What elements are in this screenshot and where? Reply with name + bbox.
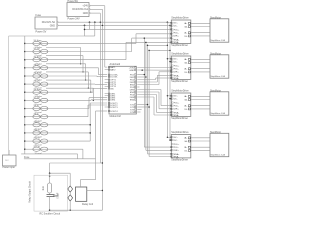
stepper motor M4 box <box>210 19 229 42</box>
svg-text:A-: A- <box>185 25 187 28</box>
svg-text:IN5: IN5 <box>110 88 114 90</box>
svg-text:X11 In: X11 In <box>34 130 41 132</box>
snubber enclosure <box>34 175 68 211</box>
wire row 8 right <box>48 99 91 101</box>
wire U2 pin1 right <box>90 5 105 7</box>
wire coil riser into MCU DOUT <box>96 110 108 112</box>
wire row1 second terminal <box>46 47 81 49</box>
svg-text:B-: B- <box>185 36 187 38</box>
wire row 2 to optocoupler <box>25 51 33 53</box>
wire pair join x=88.3 <box>87 72 89 88</box>
wire row2 to driver1 <box>132 37 172 39</box>
wire row 4 to optocoupler <box>25 67 33 69</box>
wire MCU PU3b to driver3 <box>137 96 154 98</box>
wire MCU ST3 stub <box>137 109 141 111</box>
wire row 9 to optocoupler <box>25 108 33 110</box>
MCU U1 unwired left pin stubs <box>105 69 109 71</box>
optocoupler OC11 <box>33 123 48 127</box>
wire row 6 into MCU <box>95 83 107 85</box>
svg-text:A-: A- <box>185 98 187 101</box>
svg-text:PUL-: PUL- <box>174 69 179 71</box>
wire row 13 to optocoupler <box>25 140 33 142</box>
svg-text:StepMotor 4.2A: StepMotor 4.2A <box>211 75 226 78</box>
wire into terminal J1 <box>8 150 10 155</box>
wire row 5 bend x=97.0 <box>96 75 98 78</box>
svg-text:ST4: ST4 <box>130 112 135 114</box>
wire into MCU pin VDD <box>105 66 107 68</box>
left frame vertical wire <box>8 36 10 155</box>
wire U4 A+ to motor M4 <box>191 22 210 24</box>
wire C1 to bottom rail <box>49 197 51 211</box>
wire y=45.3 to rail <box>148 44 168 46</box>
wire row1 to driver1 <box>136 33 171 35</box>
resistor R1 <box>48 183 52 193</box>
svg-text:A-: A- <box>185 61 187 64</box>
wire drop x=94.8 <box>94 22 96 36</box>
wire row 7 bend x=93.0 <box>92 88 94 92</box>
wire row2 second terminal <box>46 55 83 57</box>
wire row1 right <box>48 42 136 44</box>
wire relay coil right <box>80 179 95 181</box>
capacitor C1 mark <box>53 194 58 196</box>
junction collector row 12 <box>89 132 91 134</box>
wire row 7 right <box>48 91 93 93</box>
svg-text:X0 Step: X0 Step <box>34 39 43 42</box>
junction ladder row 3 <box>24 59 26 61</box>
junction bus+ rail <box>167 21 169 23</box>
svg-text:B-: B- <box>185 150 187 152</box>
svg-text:StepMotor 4.2A: StepMotor 4.2A <box>211 39 226 42</box>
svg-text:X3 Dir: X3 Dir <box>34 63 40 66</box>
junction trunk2 top <box>145 42 147 44</box>
svg-text:B-: B- <box>185 72 187 74</box>
svg-text:ENA-: ENA- <box>174 77 179 80</box>
junction ladder row 6 <box>24 83 26 85</box>
wire row 6 bend x=95.0 <box>94 83 96 85</box>
wire row10 right <box>48 116 88 118</box>
wire MCU ST4 stub <box>137 111 140 113</box>
wire MCU PU3 to driver3 <box>137 89 161 91</box>
junction pair x=93.3 <box>93 100 94 101</box>
wire coil riser x=95.5 <box>95 111 97 180</box>
svg-text:ENA+: ENA+ <box>174 38 180 41</box>
wire row 1 to optocoupler <box>25 42 33 44</box>
svg-text:DC-: DC- <box>174 140 178 142</box>
svg-text:GND: GND <box>129 70 134 72</box>
relay coil K1 box <box>76 187 87 201</box>
svg-text:PUL-: PUL- <box>174 147 179 149</box>
wire row 12 right <box>48 132 90 134</box>
stepper motor M5 box <box>210 55 229 78</box>
power supply U2 pin circles <box>89 5 90 6</box>
wire MCU EN2 to driver2 <box>137 84 159 86</box>
wire MCU pin level to driver2 <box>137 67 171 69</box>
wire U7 A- to motor M7 <box>191 140 210 142</box>
wire pair join x=90.8 <box>90 80 92 92</box>
wire drop x=89.5 <box>89 22 91 29</box>
svg-text:X4 Step: X4 Step <box>34 72 43 75</box>
junction busGND x=84.5 <box>84 25 86 27</box>
optocoupler OC5 <box>33 74 48 78</box>
collector vertical x=90.2 <box>89 103 91 141</box>
junction busGND rail <box>169 25 171 27</box>
optocoupler OC2 <box>33 49 48 53</box>
wire pair join x=83.0 <box>82 56 84 72</box>
optocoupler OC4 <box>33 66 48 70</box>
wire row 9 right <box>48 108 89 110</box>
wire end x=100.3 <box>99 162 101 164</box>
junction snubber frame <box>49 176 50 177</box>
wire row1 riser x=136 <box>135 34 137 44</box>
wire row 8 bend x=91.0 <box>90 99 92 102</box>
wire MCU DR3 to driver3 <box>137 91 159 93</box>
junction bus+ x=89.5 <box>89 21 91 23</box>
junction collector row 11 <box>89 124 91 126</box>
svg-text:5V+: 5V+ <box>174 59 179 61</box>
wire pair join x=80.6 <box>80 48 82 64</box>
junction ladder row 12 <box>24 132 26 134</box>
wire U5 B+ to motor M5 <box>191 68 210 70</box>
optocoupler OC10 <box>33 115 48 119</box>
junction pair x=85.6 <box>85 79 86 80</box>
svg-text:5V+: 5V+ <box>174 96 179 98</box>
svg-text:PUL+: PUL+ <box>174 103 180 105</box>
svg-text:24V: 24V <box>5 160 9 162</box>
wire U4 B+ to motor M4 <box>191 32 210 34</box>
trunk2 to driver4 pin <box>146 149 171 151</box>
svg-text:DC-: DC- <box>174 99 178 101</box>
svg-text:DIR+: DIR+ <box>174 109 180 111</box>
junction ladder row 9 <box>24 108 26 110</box>
wire row 8 to optocoupler <box>25 99 33 101</box>
svg-text:Power 5V: Power 5V <box>36 30 47 33</box>
stepper motor M6 box <box>210 92 229 115</box>
wire U6 B+ to motor M6 <box>191 105 210 107</box>
trunk x=144.3 y38-147 <box>143 38 145 147</box>
terminal block J1 box <box>3 155 17 166</box>
svg-text:+24V: +24V <box>82 5 88 8</box>
svg-text:DIR+: DIR+ <box>174 36 180 38</box>
wire U7 A+ to motor M7 <box>191 137 210 139</box>
junction bus+ x=94.8 <box>94 21 96 23</box>
junction coil GND <box>102 190 103 191</box>
svg-text:StepMotorDrive: StepMotorDrive <box>171 90 189 93</box>
optocoupler OC1 <box>33 41 48 45</box>
optocoupler OC7 <box>33 90 48 94</box>
svg-text:StepMotorDrive: StepMotorDrive <box>171 17 189 20</box>
junction ladder row 7 <box>24 91 26 93</box>
junction trunk1 top <box>144 37 146 39</box>
junction ladder row 13 <box>24 140 26 142</box>
wire row4 second terminal <box>46 71 88 73</box>
wire row 10 to optocoupler <box>25 116 33 118</box>
svg-text:DC-: DC- <box>174 62 178 64</box>
wire rail+ tap <box>167 95 171 97</box>
optocoupler OC13 <box>33 139 48 143</box>
diode D2 <box>68 195 73 201</box>
wire rail+ to driver1 <box>167 22 171 24</box>
svg-text:X8 In: X8 In <box>34 105 40 107</box>
svg-text:A-: A- <box>185 140 187 143</box>
trunk4 to driver4 pin <box>149 156 171 158</box>
svg-text:StepMotorDriver: StepMotorDriver <box>171 117 188 120</box>
wire row 7 to optocoupler <box>25 91 33 93</box>
wire row 6 right <box>48 83 95 85</box>
driver connector left pin marks <box>171 22 172 23</box>
junction x=142.2 <box>141 69 143 71</box>
wire MCU pin level to driver2 b <box>137 69 171 71</box>
wire rail- tap <box>170 98 171 100</box>
svg-text:ENA+: ENA+ <box>174 153 180 156</box>
trunk1 to driver4 pin <box>144 146 171 148</box>
wire row 14 to optocoupler <box>25 148 33 150</box>
capacitor C1 plate 1 <box>47 194 55 196</box>
svg-text:DC-: DC- <box>174 26 178 28</box>
wire to R1 <box>49 173 51 183</box>
svg-text:Relay Output Circuit: Relay Output Circuit <box>29 181 32 203</box>
junction pair x=80.6 <box>80 63 81 64</box>
junction pair x=88.3 <box>88 88 89 89</box>
junction D2 bottom <box>70 210 71 211</box>
junction ladder row 2 <box>24 51 26 53</box>
junction ladder row 5 <box>24 75 26 77</box>
trunk x=145.9 y42-150 <box>145 42 147 150</box>
wire relay bottom rail <box>50 209 103 211</box>
optocoupler OC8 <box>33 98 48 102</box>
bus +24V y=22.2 <box>58 21 167 23</box>
svg-text:DC24V/5A Out: DC24V/5A Out <box>72 8 88 11</box>
capacitor C1 plate 2 <box>47 196 55 198</box>
wire jog x=77.5 <box>77 154 79 159</box>
svg-text:X9 In: X9 In <box>34 113 40 115</box>
wire D2 to bottom rail <box>69 201 71 210</box>
DC-DC U3 box <box>35 17 57 29</box>
svg-text:DOUT4: DOUT4 <box>110 111 118 113</box>
svg-text:1kΩ: 1kΩ <box>43 186 45 190</box>
junction ladder row 1 <box>24 43 26 45</box>
optocoupler OC9 <box>33 106 48 110</box>
svg-text:DIR+: DIR+ <box>174 150 180 152</box>
svg-text:DOUT3: DOUT3 <box>110 107 118 109</box>
svg-text:Relay Coil: Relay Coil <box>82 203 93 206</box>
trunk x=149.1 y50-156 <box>148 50 150 156</box>
wire collector into MCU pin <box>90 102 107 104</box>
wire row 4 right <box>48 67 99 69</box>
wire rail+ tap <box>167 58 171 60</box>
power supply U2 box <box>67 3 89 17</box>
wire row10 into MCU <box>88 104 107 106</box>
wire drop x=104.8 to MCU VDD <box>104 6 106 67</box>
svg-text:X10 In: X10 In <box>34 121 41 123</box>
wire rail- tap <box>170 139 171 141</box>
wire MCU pin 87 stub <box>137 86 139 88</box>
wire U5 A+ to motor M5 <box>191 58 210 60</box>
wire row 5 right <box>48 75 97 77</box>
wire MCU PU2 to driver2 <box>137 79 155 81</box>
svg-text:DIR4: DIR4 <box>110 100 116 102</box>
svg-text:ENA-: ENA- <box>174 41 179 44</box>
wire U7 B- to motor M7 <box>191 149 210 151</box>
wire row3 to driver1 <box>126 41 171 43</box>
wire MCU DR1 stub <box>137 74 144 76</box>
wire pair join x=93.3 <box>92 88 94 100</box>
wire MCU EN3 to driver3 <box>137 94 156 96</box>
trunk x=147.5 y45-154 <box>147 45 149 154</box>
svg-text:ENA-: ENA- <box>174 155 179 158</box>
wire MCU DR2 to driver2 <box>137 81 157 83</box>
junction ladder row 8 <box>24 100 26 102</box>
wire row2 riser x=131.7 <box>131 38 133 51</box>
wire coil right terminal to GND drop <box>87 190 103 192</box>
stepper driver U6 box <box>171 93 191 116</box>
wire rail+ tap <box>167 136 171 138</box>
stepper driver U7 box <box>171 135 191 158</box>
svg-text:PUL+: PUL+ <box>174 144 180 146</box>
wire row 4 bend x=98.5 <box>98 68 100 75</box>
svg-text:ENA+: ENA+ <box>174 74 180 77</box>
wire U4 B- to motor M4 <box>191 35 210 37</box>
wire row14 down x=82.9 <box>82 149 84 159</box>
DC-DC U3 pin circles <box>57 22 58 23</box>
wire row 7 into MCU <box>93 87 107 89</box>
svg-text:PUL+: PUL+ <box>174 66 180 68</box>
svg-text:X13 In: X13 In <box>34 146 41 148</box>
wire MCU EN1 stub <box>137 76 146 78</box>
wire row 12 to optocoupler <box>25 132 33 134</box>
svg-text:GND: GND <box>50 24 56 27</box>
svg-text:X5 Dir: X5 Dir <box>34 80 40 83</box>
wire row6 second terminal <box>46 87 93 89</box>
wire h y=153.9 <box>21 153 77 155</box>
wire MCU ST2 stub <box>137 106 149 108</box>
svg-text:RC Snubber Circuit: RC Snubber Circuit <box>40 213 61 216</box>
wire row3 second terminal <box>46 63 86 65</box>
wire U7 B+ to motor M7 <box>191 146 210 148</box>
optocoupler OC3 <box>33 58 48 62</box>
wire row 13 right <box>48 140 90 142</box>
svg-text:StepMotorDriver: StepMotorDriver <box>171 159 188 162</box>
wire row 11 right <box>48 124 90 126</box>
wire U2 pin2 right <box>90 8 102 10</box>
riser x=84.5 to GND bus <box>84 25 86 36</box>
svg-text:X2 Step: X2 Step <box>34 55 43 58</box>
svg-text:B-: B- <box>185 109 187 111</box>
MCU U1 right pin squares <box>135 67 137 68</box>
wire drop x=100.3 to bottom bend <box>99 13 101 163</box>
svg-text:BAT2: BAT2 <box>110 69 116 72</box>
wire row 9 into MCU <box>89 97 107 99</box>
junction riser y=29.4 <box>84 29 86 31</box>
svg-text:StepMotor 4.2A: StepMotor 4.2A <box>211 154 226 157</box>
svg-text:ENA-: ENA- <box>174 114 179 117</box>
svg-text:DCOM-: DCOM- <box>110 77 118 79</box>
svg-text:MotionCtrl: MotionCtrl <box>110 115 122 118</box>
wire drop join frame top <box>85 35 95 37</box>
svg-text:5V+: 5V+ <box>174 23 179 25</box>
svg-text:StepMotorDrive: StepMotorDrive <box>171 53 189 56</box>
wire relay coil up <box>79 180 81 187</box>
wire U5 B- to motor M5 <box>191 71 210 73</box>
wire row5 second terminal <box>46 79 91 81</box>
wire R1 to C1 <box>49 193 51 195</box>
junction ladder row 10 <box>24 116 26 118</box>
svg-text:Power Input: Power Input <box>3 166 16 169</box>
junction crossing x=102.4 <box>102 25 103 26</box>
wire row3 riser x=126 <box>125 42 127 59</box>
wire row 5 into MCU <box>97 76 107 78</box>
wire drop to snubber <box>49 163 51 173</box>
wire D1-D2 <box>69 192 71 195</box>
wire rail- tap <box>170 61 171 63</box>
wire row 9 bend x=89.0 <box>88 98 90 109</box>
wire row 11 to optocoupler <box>25 124 33 126</box>
svg-text:ENA+: ENA+ <box>174 111 180 114</box>
svg-text:X7 Dir: X7 Dir <box>34 96 40 99</box>
junction x=102.4 y=163 <box>102 162 103 163</box>
junction crossing x=100.3 <box>100 22 101 23</box>
capacitor C1 mark2 <box>53 195 58 197</box>
frame top horizontal wire y=36 <box>9 35 85 37</box>
wire pair join x=85.6 <box>85 64 87 80</box>
wire rail- to driver1 <box>170 25 171 27</box>
wire U2 pin3 right <box>90 12 100 14</box>
junction ladder row 14 <box>24 148 26 150</box>
junction pair x=90.8 <box>90 92 91 93</box>
wire row10 bend <box>87 105 89 117</box>
wire drop x=102.4 to relay bottom rail <box>101 9 103 210</box>
trunk3 to driver4 pin <box>148 153 172 155</box>
svg-text:X6 Step: X6 Step <box>34 88 43 91</box>
svg-text:5V+: 5V+ <box>174 137 179 139</box>
stepper driver U4 box <box>171 20 191 43</box>
svg-text:Power 24V: Power 24V <box>68 18 81 21</box>
MCU U1 left pin squares <box>108 66 110 67</box>
input common bus x=24.8 <box>24 36 26 154</box>
wire row 5 to optocoupler <box>25 75 33 77</box>
junction snubber top <box>49 172 51 174</box>
wire h y=163 <box>50 162 103 164</box>
svg-text:PUL+: PUL+ <box>174 30 180 32</box>
wire to D1 <box>69 173 71 186</box>
svg-text:StepMotorDriver: StepMotorDriver <box>171 44 188 47</box>
svg-text:0.1uF: 0.1uF <box>58 192 60 198</box>
wire row 4 into MCU <box>99 74 108 76</box>
power rail+ x=167.4 <box>166 22 168 137</box>
wire row 3 to optocoupler <box>25 59 33 61</box>
stepper driver U5 box <box>171 56 191 79</box>
junction snubber bottom <box>49 209 51 211</box>
junction ladder row 11 <box>24 124 26 126</box>
wire U6 B- to motor M6 <box>191 108 210 110</box>
wire MCU ST1 stub <box>137 104 147 106</box>
svg-text:X12 In: X12 In <box>34 138 41 140</box>
svg-text:ArduCard: ArduCard <box>110 63 121 66</box>
optocoupler OC6 <box>33 82 48 86</box>
wire row 8 into MCU <box>91 99 107 101</box>
svg-text:StepMotor 4.2A: StepMotor 4.2A <box>211 112 226 115</box>
wire row3 right <box>48 59 126 61</box>
svg-text:PUL-: PUL- <box>174 106 179 108</box>
diode D1 <box>68 186 73 192</box>
bus GND y=25.4 <box>58 24 170 26</box>
svg-text:X1 Dir: X1 Dir <box>34 47 40 50</box>
optocoupler OC14 <box>33 147 48 151</box>
wire U6 A+ to motor M6 <box>191 95 210 97</box>
wire row14 right <box>48 148 83 150</box>
svg-text:EN4: EN4 <box>130 99 135 101</box>
svg-text:GND: GND <box>83 12 89 15</box>
stepper motor M7 box <box>210 133 229 156</box>
